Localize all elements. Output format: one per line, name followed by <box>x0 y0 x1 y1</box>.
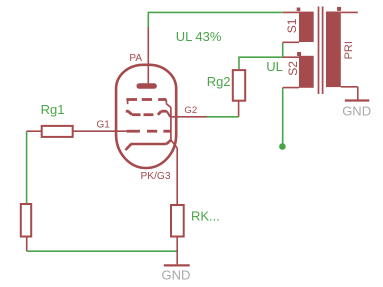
svg-text:Rg2: Rg2 <box>207 74 231 89</box>
svg-text:RK...: RK... <box>191 209 220 224</box>
svg-text:PA: PA <box>129 53 142 64</box>
svg-text:GND: GND <box>342 103 371 118</box>
svg-text:G2: G2 <box>184 105 197 116</box>
svg-text:GND: GND <box>162 267 191 282</box>
svg-text:S1: S1 <box>285 18 299 33</box>
svg-text:UL 43%: UL 43% <box>176 29 222 44</box>
svg-text:Rg1: Rg1 <box>41 102 65 117</box>
svg-text:PK/G3: PK/G3 <box>141 171 171 182</box>
svg-text:S2: S2 <box>286 61 300 76</box>
svg-text:G1: G1 <box>97 119 111 130</box>
svg-text:PRI: PRI <box>343 41 355 59</box>
svg-text:UL: UL <box>266 59 283 74</box>
